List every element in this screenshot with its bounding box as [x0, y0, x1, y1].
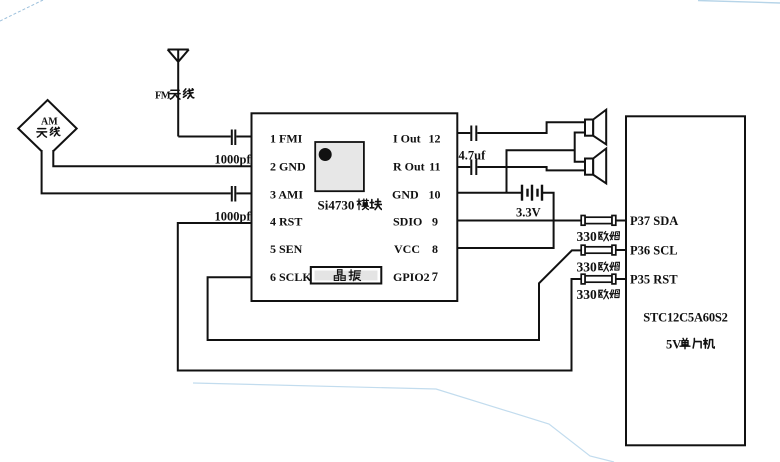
wire pin 11 R Out to C4	[457, 166, 470, 168]
wire R1 to MCU P37	[616, 220, 626, 222]
capacitor C4 4.7uf (R Out)	[471, 160, 476, 176]
svg-text:AM: AM	[41, 117, 58, 128]
blue scratch artifact bottom	[193, 383, 614, 462]
wire battery to pin 8 VCC	[457, 193, 553, 248]
svg-text:330: 330	[577, 287, 598, 302]
svg-text:P36 SCL: P36 SCL	[630, 244, 678, 258]
wire AM antenna down to C2	[42, 150, 231, 193]
svg-text:1000pf: 1000pf	[215, 153, 252, 167]
svg-text:FM: FM	[155, 91, 171, 102]
module inner chip square	[315, 142, 364, 191]
chip pin-1 dot	[319, 148, 332, 161]
label FM天线	[155, 89, 194, 102]
svg-text:GPIO2: GPIO2	[393, 270, 430, 284]
label 5V单片机	[666, 338, 715, 352]
wire pin 4 RST long route to R3	[178, 223, 581, 371]
wire pin 9 SDIO to R1	[457, 220, 581, 222]
svg-text:VCC: VCC	[394, 242, 420, 256]
AM antenna	[18, 100, 76, 151]
label Si4730模块	[318, 198, 382, 213]
Si4730 module block U1	[252, 113, 458, 301]
svg-text:11: 11	[429, 160, 440, 174]
wire pin 10 GND to battery	[457, 192, 521, 194]
svg-text:3.3V: 3.3V	[516, 206, 541, 220]
svg-text:5V: 5V	[666, 338, 681, 352]
wire FM antenna to C1	[178, 136, 231, 138]
MCU block STC12C5A60S2	[626, 116, 745, 445]
battery BT1 3.3V	[522, 185, 542, 201]
capacitor C2 1000pf (AMI)	[232, 186, 236, 202]
resistor R1 330ohm	[581, 216, 616, 226]
capacitor C1 1000pf (FMI)	[232, 130, 236, 146]
svg-text:3 AMI: 3 AMI	[270, 188, 303, 202]
wire LS1 return to LS2 top	[575, 133, 585, 162]
svg-text:330: 330	[577, 260, 598, 275]
wire C4 to speaker LS2	[477, 167, 584, 170]
wire C1 to pin 1 FMI	[236, 136, 251, 138]
svg-text:1 FMI: 1 FMI	[270, 132, 303, 146]
label 330欧姆 (R3)	[577, 287, 620, 302]
resistor R2 330ohm	[581, 245, 616, 255]
svg-text:9: 9	[432, 215, 438, 229]
svg-text:5 SEN: 5 SEN	[270, 242, 303, 256]
blue scratch artifact top-left	[0, 0, 43, 21]
FM antenna	[168, 50, 189, 137]
svg-text:10: 10	[429, 188, 441, 202]
svg-text:1000pf: 1000pf	[215, 210, 252, 224]
wire R2 to MCU P36	[616, 249, 626, 251]
blue scratch artifact top-right	[698, 1, 780, 4]
wire pin 6 SCLK long route to R2	[208, 250, 581, 340]
speaker LS1	[585, 110, 606, 145]
svg-text:I Out: I Out	[393, 132, 421, 146]
wire pin 12 I Out to C3	[457, 132, 470, 134]
speaker LS2	[585, 149, 606, 184]
svg-text:GND: GND	[392, 188, 419, 202]
svg-text:4 RST: 4 RST	[270, 215, 302, 229]
svg-text:Si4730: Si4730	[318, 198, 355, 213]
svg-text:7: 7	[432, 270, 438, 284]
capacitor C3 4.7uf (I Out)	[471, 126, 476, 142]
svg-text:6 SCLK: 6 SCLK	[270, 270, 312, 284]
svg-text:P35 RST: P35 RST	[630, 273, 678, 287]
wire C3 to speaker LS1	[477, 122, 584, 133]
label AM天线	[37, 117, 60, 138]
svg-text:330: 330	[577, 229, 598, 244]
resistor R3 330ohm	[581, 274, 616, 284]
wire AM antenna to pin 2 GND	[53, 150, 251, 166]
wire speaker return to GND line	[507, 150, 575, 192]
wire R3 to MCU P35	[616, 278, 626, 280]
svg-text:8: 8	[432, 242, 438, 256]
svg-text:P37 SDA: P37 SDA	[630, 214, 678, 228]
crystal box 晶振	[311, 267, 382, 284]
wire C2 to pin 3 AMI	[236, 192, 251, 194]
svg-text:12: 12	[429, 132, 441, 146]
label 330欧姆 (R1)	[577, 229, 620, 244]
svg-text:R Out: R Out	[393, 160, 425, 174]
svg-text:STC12C5A60S2: STC12C5A60S2	[643, 311, 727, 325]
svg-text:SDIO: SDIO	[393, 215, 422, 229]
label 330欧姆 (R2)	[577, 260, 620, 275]
svg-text:2 GND: 2 GND	[270, 160, 306, 174]
